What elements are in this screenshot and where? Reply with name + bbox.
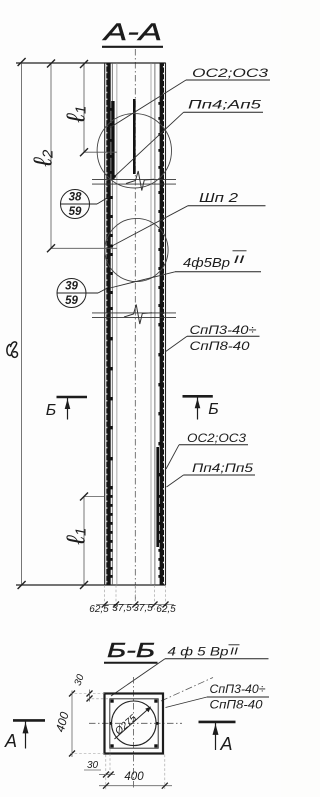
BB diameter label line with arrow: [112, 707, 151, 740]
svg-text:37,5: 37,5: [112, 603, 132, 614]
dimension l2 vertical line: [50, 63, 52, 248]
detail bubble 38/59: [61, 190, 110, 219]
svg-text:II: II: [234, 254, 245, 266]
tick l1 bottom: [80, 148, 88, 156]
BB vertical centerline: [133, 677, 135, 790]
label OC2;OC3 top: [107, 66, 270, 130]
dash-dot projection diagonal BB: [161, 678, 213, 702]
panel bar Pp4/Pp5 bottom right: [156, 447, 159, 547]
svg-text:4ф5Вр: 4ф5Вр: [183, 256, 230, 270]
hole edge right: [150, 63, 152, 585]
svg-text:II: II: [230, 646, 238, 658]
svg-text:30: 30: [87, 760, 99, 771]
BB extension lines left: [70, 694, 110, 754]
tick l1 top: [80, 60, 88, 68]
right wall inner thin line: [154, 63, 156, 585]
svg-text:Б-Б: Б-Б: [107, 640, 155, 662]
tick l2 top: [47, 60, 55, 68]
BB outer square: [105, 694, 164, 754]
label Pp4;Pp5 bottom: [167, 461, 256, 487]
svg-text:37,5: 37,5: [133, 603, 153, 614]
svg-text:А: А: [4, 731, 17, 751]
dimension l1 bottom vertical line: [83, 497, 85, 586]
svg-text:59: 59: [69, 206, 82, 218]
label Pp4;Ap5 top: [113, 98, 263, 178]
break symbol 1: [92, 171, 176, 191]
svg-text:400: 400: [124, 771, 144, 783]
hole edge left: [116, 63, 118, 585]
left wall band speckle: [106, 65, 108, 585]
detail bubble 39/59: [57, 279, 107, 308]
BB bottom dimension 400: [99, 771, 172, 789]
left wall inner thin line: [111, 63, 113, 585]
panel bar Pp4/Ap5 top left: [111, 101, 114, 180]
BB left dimension 30 (cover top): [73, 673, 93, 702]
BB bottom extension lines: [106, 749, 165, 790]
bottom width dimension texts: [89, 603, 176, 615]
svg-text:39: 39: [65, 281, 78, 293]
svg-text:38: 38: [69, 192, 82, 204]
stirrup dots left wall: [110, 108, 113, 578]
tick z bottom: [18, 581, 26, 589]
break symbol 2: [92, 305, 176, 325]
column top edge line with extension to dimension lines: [16, 62, 166, 64]
BB inner stirrup square: [110, 699, 158, 748]
svg-text:Б: Б: [208, 401, 218, 418]
section marker B left: [46, 397, 87, 420]
tick l1b bottom: [80, 581, 88, 589]
left wall reinforcement band: [106, 63, 110, 585]
tick l1b top: [80, 493, 88, 501]
svg-text:ОС2;ОС3: ОС2;ОС3: [187, 433, 247, 445]
column outer edge right: [165, 63, 167, 585]
BB bottom dimension 30 (cover left): [84, 760, 115, 778]
ticks bottom dimension: [102, 602, 169, 608]
l1 extension line: [84, 151, 117, 153]
column bottom edge line with extension to dimension lines: [16, 584, 166, 586]
BB corner rebar dots: [110, 700, 159, 748]
section title A-A: [101, 19, 163, 47]
svg-text:Пп4;Ап5: Пп4;Ап5: [188, 98, 262, 112]
detail circle 1: [97, 114, 171, 188]
svg-text:62,5: 62,5: [89, 604, 109, 615]
section title B-B: [104, 640, 158, 663]
svg-text:62,5: 62,5: [156, 604, 176, 615]
section marker A right: [199, 722, 236, 754]
detail circle 2: [105, 218, 168, 281]
label SpP3-40 / SpP8-40 section BB: [166, 684, 270, 712]
tick l2 bottom: [47, 244, 55, 252]
right wall reinforcement band: [160, 63, 164, 585]
l2 extension line: [51, 247, 117, 249]
section marker B right: [183, 396, 219, 419]
svg-text:СпП3-40÷: СпП3-40÷: [210, 684, 267, 696]
svg-text:59: 59: [65, 295, 78, 307]
svg-text:СпП3-40÷: СпП3-40÷: [190, 323, 257, 337]
svg-text:Б: Б: [46, 402, 56, 419]
label z: [7, 342, 18, 357]
svg-text:4 ф 5 Вр: 4 ф 5 Вр: [168, 645, 229, 659]
label 4f5VrII section BB: [111, 645, 269, 697]
center bar Shp2: [133, 99, 136, 174]
label SpP3-40 / SpP8-40 mid: [165, 323, 260, 353]
dimension l1 top vertical line: [83, 63, 85, 152]
svg-text:А: А: [219, 734, 232, 754]
svg-text:СпП8-40: СпП8-40: [210, 700, 264, 712]
section marker A left: [4, 720, 45, 751]
BB left dimension 400: [53, 691, 75, 758]
label Shp 2: [110, 190, 266, 248]
svg-text:Пп4;Пп5: Пп4;Пп5: [192, 461, 253, 475]
column outer edge left: [104, 63, 106, 585]
bottom width dimension line: [96, 604, 174, 606]
stirrup dots right wall: [158, 102, 161, 578]
bottom width dimension extension lines: [105, 585, 166, 610]
right wall band speckle: [163, 66, 165, 585]
label 4f5VrII mid: [107, 251, 261, 290]
svg-text:СпП8-40: СпП8-40: [190, 339, 250, 353]
l1 bottom extension line: [84, 496, 105, 498]
column centerline (vertical dash-dot): [134, 49, 136, 601]
svg-text:А-А: А-А: [101, 19, 162, 46]
svg-text:ОС2;ОС3: ОС2;ОС3: [192, 66, 268, 80]
tick z top: [18, 58, 26, 66]
BB horizontal centerline: [89, 722, 182, 724]
BB core circle: [112, 701, 157, 746]
dimension z vertical line: [21, 62, 23, 586]
svg-text:Шп 2: Шп 2: [199, 190, 239, 205]
label OC2;OC3 bottom: [166, 433, 248, 469]
